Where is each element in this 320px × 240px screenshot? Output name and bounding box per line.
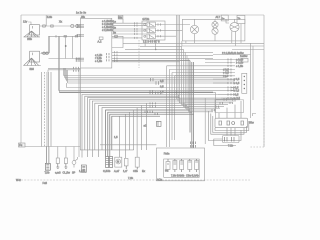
- svg-text:1e 2e 3e: 1e 2e 3e: [76, 11, 87, 15]
- svg-text:s 1,5b: s 1,5b: [95, 59, 103, 63]
- comp narrow: [124, 159, 128, 170]
- svg-text:k 0,5: k 0,5: [234, 88, 240, 92]
- radio labels: [165, 168, 199, 177]
- connector bumps K2 wire: [43, 52, 49, 55]
- narrow pin box right: [242, 73, 247, 93]
- svg-text:5b5: 5b5: [30, 67, 35, 71]
- zone boundary dashed: [250, 60, 264, 147]
- U1 left pin cluster b: [77, 34, 85, 37]
- svg-text:m 0,5: m 0,5: [234, 96, 241, 100]
- wire drop to K2: [41, 36, 50, 53]
- svg-text:7,9b 5Ab8b: 7,9b 5Ab8b: [171, 173, 185, 177]
- relay block U2: [142, 17, 165, 40]
- relay box B1 on border: [221, 15, 228, 21]
- verticals descending to bottom row left: [42, 72, 51, 147]
- vertical x205: [204, 98, 206, 144]
- relay U2c: [144, 34, 156, 39]
- stray connector pair mid: [157, 121, 162, 126]
- vertical x215.7: [215, 93, 217, 118]
- svg-text:7,0b: 7,0b: [128, 176, 134, 180]
- wire rows into stack mid: [176, 90, 221, 98]
- wire 12v stub: [28, 22, 31, 25]
- loop wires below relay row: [209, 111, 249, 146]
- svg-text:B5b: B5b: [27, 37, 32, 41]
- row labels upper: [223, 58, 244, 78]
- wire y58.5: [49, 58, 81, 60]
- svg-text:d 2,5b/5w: d 2,5b/5w: [102, 28, 113, 32]
- verticals right side: [251, 43, 254, 118]
- connector cluster lower mid: [145, 102, 158, 115]
- U1 right loop wire: [112, 36, 123, 47]
- U1 left pin cluster c: [76, 57, 85, 61]
- svg-text:g 0,5: g 0,5: [234, 77, 240, 81]
- svg-text:1,5: 1,5: [160, 90, 164, 94]
- label Fu at left border bottom: [19, 143, 26, 147]
- fuse F1 drop from border: [46, 15, 52, 26]
- verticals to bottom components: [119, 103, 146, 158]
- svg-text:1?.1,5b/5,0b lw/5w: 1?.1,5b/5,0b lw/5w: [222, 51, 244, 55]
- U1 internal text rows lower: [95, 53, 103, 63]
- U1 left pin cluster a: [77, 24, 85, 28]
- right stack header line: [213, 51, 251, 55]
- U1 internal text rows: [102, 19, 113, 32]
- bracket tick right of relay row: [253, 114, 257, 117]
- svg-text:G7Db: G7Db: [142, 17, 149, 21]
- connector pair on top feed 2: [51, 25, 54, 28]
- junction dot: [65, 45, 67, 47]
- svg-text:C5b: C5b: [133, 169, 138, 173]
- lamp M1: [190, 19, 198, 41]
- control unit U1: [81, 15, 112, 68]
- comp c2: [64, 147, 67, 169]
- wire drop x65.7: [65, 36, 67, 58]
- dark wire y61: [112, 61, 190, 62]
- connector pair on top feed: [43, 25, 46, 28]
- wire drop x72.5: [72, 36, 74, 58]
- svg-text:C,5Ub: C,5Ub: [103, 169, 111, 173]
- lamp box feed verticals from border: [177, 15, 241, 103]
- switch K2 (left): [23, 51, 41, 65]
- svg-text:C5w 5,0Ab: C5w 5,0Ab: [186, 173, 199, 177]
- lamp M2: [212, 19, 218, 28]
- radio inner box: [164, 159, 200, 177]
- motor M4: [226, 19, 241, 43]
- comp c1: [56, 147, 59, 169]
- tick J1: [55, 35, 57, 38]
- comp ground G1: [81, 165, 86, 172]
- radio comp 2: [173, 159, 177, 172]
- relay box B2 on border: [237, 15, 245, 23]
- connector cluster at U1 right exit: [107, 51, 118, 61]
- relay symbols in row: [219, 121, 243, 126]
- svg-text:W-2: W-2: [16, 178, 21, 182]
- row connector symbols upper: [228, 58, 231, 77]
- inner cascade corners dark: [106, 110, 194, 157]
- right stack row connectors lower: [213, 78, 235, 99]
- lamp M3: [212, 28, 218, 41]
- long wires y46-58 with down-turns: [112, 46, 228, 111]
- svg-text:M: M: [117, 160, 119, 164]
- svg-text:1,5: 1,5: [114, 135, 118, 139]
- svg-text:T,0b: T,0b: [45, 171, 50, 175]
- corner set mid-right (down turns): [167, 66, 235, 147]
- dark feed to radio: [190, 61, 194, 148]
- relay row frame R1: [215, 101, 248, 128]
- radio unit box: [156, 148, 204, 181]
- stack terminator connectors on fan rows: [212, 98, 235, 111]
- relay U2b: [144, 28, 156, 33]
- dashed drop x139: [138, 40, 140, 68]
- resistor pair dark: [106, 157, 113, 168]
- comp box: [135, 157, 139, 169]
- right stack rows upper: [205, 60, 242, 63]
- mid connector cluster on bus: [150, 78, 161, 94]
- svg-text:1,10b: 1,10b: [79, 169, 86, 173]
- left bottom connector T: [45, 147, 50, 171]
- svg-text:A,u7: A,u7: [114, 169, 120, 173]
- svg-text:c 1,5b: c 1,5b: [236, 64, 244, 68]
- wire labels right of U1: [113, 19, 116, 34]
- bus line labels left of cluster: [160, 79, 164, 94]
- svg-text:0,5: 0,5: [160, 79, 164, 83]
- radio comp 3: [180, 159, 184, 172]
- svg-text:Fu5: Fu5: [43, 181, 48, 185]
- svg-text:ACu: ACu: [157, 177, 163, 181]
- U1 bottom drop wires: [79, 68, 80, 157]
- svg-text:12v: 12v: [23, 20, 28, 24]
- motor box M5: [115, 157, 122, 167]
- svg-text:5M: 5M: [119, 15, 123, 19]
- connector cluster above radio: [191, 142, 196, 148]
- comp c3: [72, 147, 77, 168]
- svg-text:l 0,5: l 0,5: [234, 93, 239, 97]
- bus corner turns top-left: [48, 36, 81, 92]
- wires U2 right to lamp unit: [155, 23, 190, 37]
- frame around top connector cluster: [215, 100, 244, 113]
- svg-text:CL,5w: CL,5w: [63, 171, 70, 175]
- junction line y149.9: [80, 149, 134, 151]
- wire top feed y26: [40, 25, 81, 27]
- connector rings on top feed: [71, 24, 79, 27]
- wire y36: [49, 35, 81, 37]
- wires below lamp unit: [123, 41, 264, 50]
- relay U2a: [144, 22, 156, 27]
- right stack small box: [242, 58, 248, 62]
- connector on loop: [115, 35, 118, 38]
- radio comp 5: [195, 159, 199, 172]
- svg-text:ALT: ALT: [216, 15, 221, 19]
- horizontal line at y146.5: [21, 146, 80, 148]
- svg-text:3P: 3P: [72, 171, 75, 175]
- junction line y144.8: [100, 144, 156, 146]
- switch K1 (top-left): [24, 25, 41, 37]
- small box on border x120: [118, 15, 123, 23]
- svg-text:55w: 55w: [249, 120, 254, 124]
- U1 internal fuse symbol: [98, 37, 104, 44]
- dark bus pair: [59, 91, 213, 93]
- svg-text:h 0,5: h 0,5: [234, 81, 240, 85]
- inner connector row: [223, 136, 240, 143]
- svg-text:1,r7: 1,r7: [123, 169, 128, 173]
- main bus wires middle: [59, 76, 236, 93]
- svg-text:5.0b: 5.0b: [47, 15, 53, 19]
- nested corner cascade (wires from right turning down): [82, 95, 189, 158]
- radio comp 1: [166, 159, 170, 172]
- border frame: [21, 15, 264, 180]
- wires U1 to relay block: [112, 23, 147, 38]
- svg-text:A.2: A.2: [98, 40, 102, 44]
- svg-text:c,m3: c,m3: [55, 171, 61, 175]
- svg-text:J5b: J5b: [81, 15, 86, 19]
- lamp unit box U3: [182, 19, 245, 41]
- wires relay block down: [145, 40, 156, 49]
- connector pairs on relay feed wires: [135, 22, 138, 39]
- right stack row labels lower: [233, 77, 241, 100]
- svg-text:Fu8s: Fu8s: [164, 152, 170, 156]
- svg-text:0,5: 0,5: [160, 84, 164, 88]
- radio comp 4: [188, 159, 192, 172]
- bottom labels row: [45, 169, 146, 175]
- connector cluster on y68 wires: [74, 67, 79, 72]
- svg-text:7.1b: 7.1b: [228, 143, 234, 147]
